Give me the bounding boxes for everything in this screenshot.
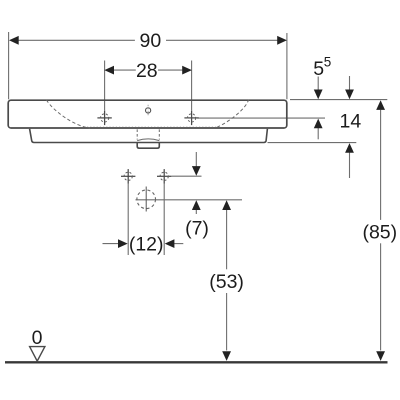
svg-text:28: 28 [136,60,158,82]
svg-text:5: 5 [313,58,324,80]
svg-text:(53): (53) [209,271,244,293]
svg-text:14: 14 [340,111,362,133]
svg-text:(85): (85) [362,221,397,243]
svg-text:90: 90 [140,30,162,52]
svg-text:5: 5 [324,55,332,70]
svg-text:(7): (7) [185,217,209,239]
svg-text:0: 0 [32,327,43,349]
svg-text:(12): (12) [129,233,164,255]
